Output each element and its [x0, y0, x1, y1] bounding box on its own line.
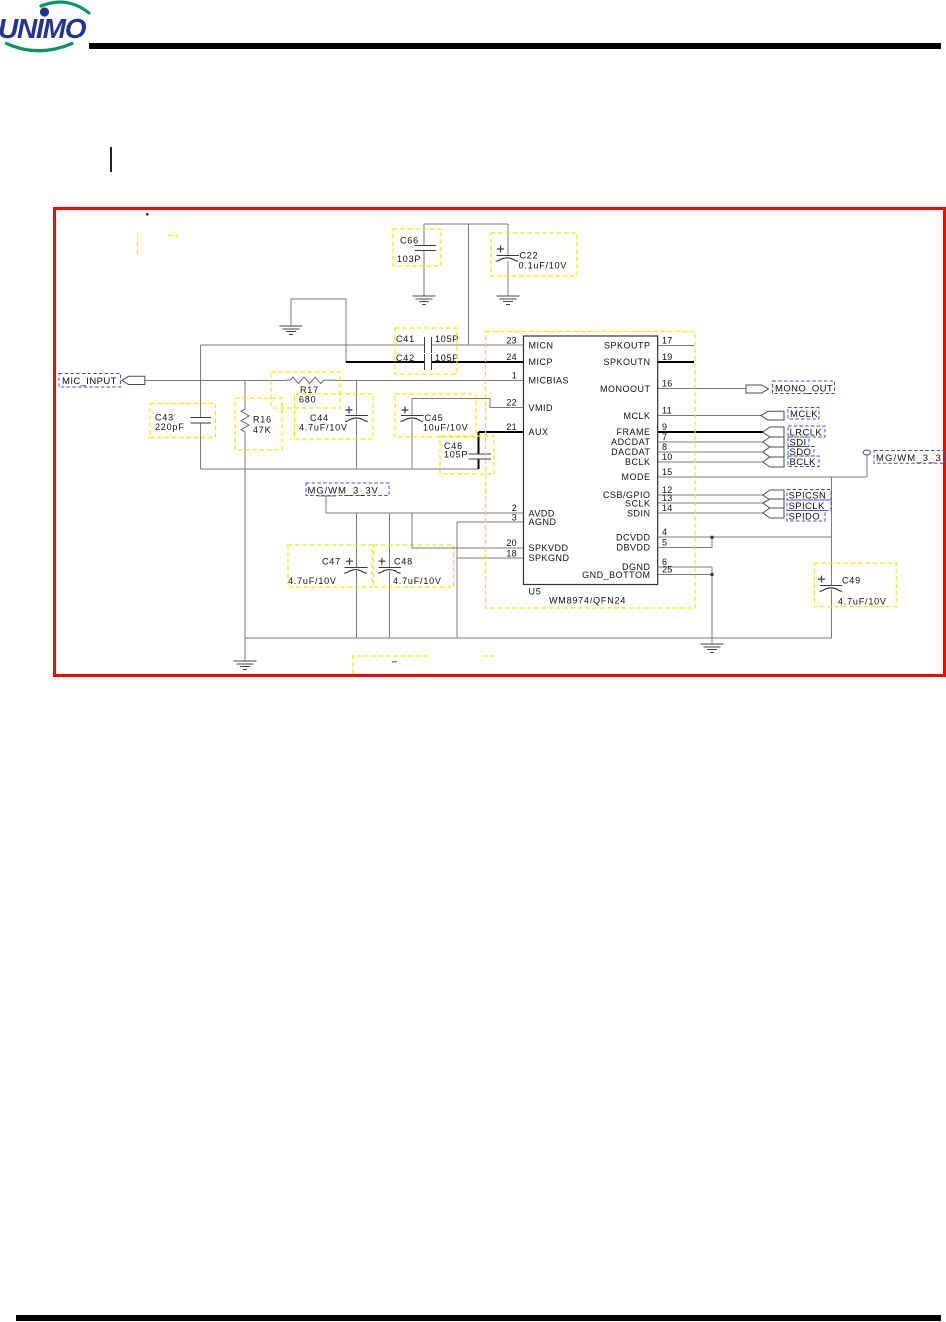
- svg-text:220pF: 220pF: [155, 422, 185, 432]
- label SPICSN: [787, 490, 831, 502]
- wire SCLK net: [658, 502, 763, 504]
- IC big dashed box: [486, 332, 696, 609]
- svg-text:SPKOUTP: SPKOUTP: [604, 341, 651, 351]
- svg-text:21: 21: [506, 422, 517, 432]
- junction pin5: [711, 536, 714, 539]
- svg-text:20: 20: [506, 538, 517, 548]
- pin numbers left: [506, 335, 517, 558]
- label BCLK: [788, 456, 819, 468]
- red frame: [53, 207, 946, 677]
- label SDI: [788, 437, 809, 448]
- svg-text:680: 680: [299, 395, 316, 405]
- schematic svg placeholder: [0, 0, 946, 760]
- svg-text:1: 1: [512, 371, 517, 381]
- svg-text:AUX: AUX: [529, 427, 549, 437]
- wire top bus: [424, 223, 508, 225]
- resistor R17: [271, 372, 340, 408]
- svg-text:13: 13: [662, 493, 673, 503]
- svg-text:2: 2: [512, 503, 517, 513]
- svg-text:MCLK: MCLK: [790, 409, 818, 420]
- svg-text:11: 11: [662, 406, 672, 416]
- capacitor C44: [295, 394, 374, 439]
- svg-text:24: 24: [506, 352, 517, 362]
- svg-text:103P: 103P: [397, 254, 421, 264]
- wire C47 branch: [356, 513, 358, 638]
- svg-text:WM8974/QFN24: WM8974/QFN24: [549, 596, 626, 606]
- wire MONOOUT net: [658, 388, 746, 390]
- svg-text:5: 5: [662, 538, 667, 548]
- svg-text:105P: 105P: [444, 450, 468, 460]
- svg-text:SPKVDD: SPKVDD: [529, 543, 569, 553]
- pin names right: [582, 341, 650, 581]
- svg-text:C47: C47: [322, 557, 341, 567]
- capacitor C41: [396, 334, 459, 353]
- wire SPKVDD link: [412, 513, 524, 548]
- wire MODE net: [658, 455, 867, 537]
- svg-text:4: 4: [662, 527, 667, 537]
- wire AUX net: [479, 432, 524, 469]
- svg-text:17: 17: [662, 335, 673, 345]
- svg-text:105P: 105P: [435, 334, 459, 344]
- port connector MCLK: [761, 411, 784, 420]
- capacitor C46: [440, 436, 494, 474]
- svg-text:C49: C49: [842, 576, 861, 586]
- svg-text:AGND: AGND: [529, 517, 557, 527]
- svg-text:MIC_INPUT: MIC_INPUT: [62, 376, 117, 387]
- wire MICP net: [346, 361, 524, 363]
- wire MCLK net: [658, 415, 761, 417]
- svg-text:3: 3: [512, 513, 517, 523]
- svg-text:4.7uF/10V: 4.7uF/10V: [393, 576, 442, 586]
- port connector SDO: [763, 447, 784, 457]
- ground bottom-mid: [701, 644, 724, 652]
- pin numbers right: [662, 335, 673, 574]
- svg-text:14: 14: [662, 503, 673, 513]
- wire SDIN net: [658, 512, 763, 514]
- svg-text:DACDAT: DACDAT: [611, 447, 650, 457]
- bottom rule: [16, 1315, 941, 1321]
- svg-text:SPKGND: SPKGND: [529, 553, 570, 563]
- op IC U1 body WM8974: [524, 336, 658, 585]
- capacitor C22: [491, 233, 577, 276]
- svg-text:MICP: MICP: [529, 357, 554, 367]
- svg-text:SDIN: SDIN: [627, 508, 651, 518]
- port connector SPICLK: [763, 499, 784, 508]
- svg-text:U5: U5: [529, 587, 542, 597]
- svg-text:SPIDO: SPIDO: [789, 512, 821, 523]
- wire DGND/GND_BOTTOM net: [658, 567, 712, 644]
- svg-text:105P: 105P: [435, 353, 459, 363]
- port connector BCLK: [763, 457, 784, 467]
- pin names left: [529, 341, 570, 564]
- wire FRAME net: [658, 431, 763, 433]
- resistor R16: [235, 381, 282, 662]
- dashed fragment bottom-mid: [483, 655, 498, 657]
- label MG/WM_3_3: [874, 451, 945, 464]
- UNIMO logo: [0, 0, 120, 70]
- wire mid vertical to MICN: [468, 224, 470, 345]
- wire C45/VMID branch: [412, 399, 524, 470]
- wire left vertical / C43 branch: [200, 345, 202, 469]
- wire CSB/GPIO net: [658, 494, 763, 496]
- wire AGND/SPKGND net: [457, 522, 524, 638]
- svg-text:22: 22: [506, 398, 517, 408]
- ground under C22: [497, 296, 520, 304]
- svg-text:MCLK: MCLK: [623, 411, 650, 421]
- svg-text:FRAME: FRAME: [617, 427, 651, 437]
- wire MICN net: [201, 344, 524, 346]
- IC refdes U5: [529, 587, 627, 606]
- svg-text:MG/WM_3_3: MG/WM_3_3: [876, 453, 942, 464]
- wire C44 branch: [356, 381, 358, 470]
- svg-text:MG/WM_3_3V: MG/WM_3_3V: [308, 486, 379, 497]
- junction pin25: [711, 573, 714, 576]
- label MONO_OUT: [773, 381, 835, 394]
- svg-text:MODE: MODE: [622, 472, 651, 482]
- svg-text:DBVDD: DBVDD: [616, 543, 650, 553]
- svg-text:7: 7: [662, 432, 667, 442]
- svg-text:BCLK: BCLK: [790, 457, 817, 468]
- text cursor mark: [110, 147, 112, 172]
- svg-text:C44: C44: [310, 413, 329, 423]
- capacitor C43: [150, 404, 216, 438]
- svg-text:10uF/10V: 10uF/10V: [423, 423, 468, 433]
- svg-text:BCLK: BCLK: [625, 457, 651, 467]
- label SPICLK: [787, 500, 831, 512]
- wire upper-left ground link: [291, 299, 346, 362]
- label SPIDO: [787, 511, 825, 523]
- svg-text:C66: C66: [400, 236, 419, 246]
- wire BCLK net: [658, 461, 763, 463]
- svg-text:SPKOUTN: SPKOUTN: [603, 357, 650, 367]
- label MG/WM_3_3V: [306, 483, 389, 497]
- svg-text:R16: R16: [253, 415, 272, 425]
- svg-text:MICN: MICN: [529, 341, 554, 351]
- port connector SDI: [763, 437, 784, 447]
- svg-text:19: 19: [662, 352, 673, 362]
- label MCLK: [788, 408, 819, 421]
- svg-text:0.1uF/10V: 0.1uF/10V: [519, 261, 568, 271]
- wire C22 vertical: [507, 224, 509, 296]
- ground lower-left: [234, 661, 257, 669]
- svg-text:4.7uF/10V: 4.7uF/10V: [288, 576, 337, 586]
- svg-text:R17: R17: [300, 385, 319, 395]
- svg-text:C45: C45: [425, 413, 444, 423]
- svg-text:16: 16: [662, 379, 673, 389]
- port connector SPIDO: [763, 508, 784, 518]
- port connector LRCLK: [763, 427, 784, 437]
- wire C49 branch: [831, 537, 833, 638]
- wire MICBIAS net: [145, 380, 524, 382]
- label MIC_INPUT: [59, 374, 121, 388]
- capacitor C42: [395, 328, 459, 374]
- svg-text:DCVDD: DCVDD: [616, 532, 651, 542]
- port connector MONO_OUT: [746, 385, 769, 393]
- wire ADCDAT net: [658, 441, 763, 443]
- svg-text:C41: C41: [396, 334, 415, 344]
- svg-text:ADCDAT: ADCDAT: [611, 437, 650, 447]
- svg-text:VMID: VMID: [529, 403, 554, 413]
- svg-text:47K: 47K: [253, 425, 271, 435]
- svg-text:25: 25: [662, 565, 673, 575]
- svg-text:23: 23: [506, 335, 517, 345]
- label SDO: [788, 447, 814, 458]
- wire DCVDD net: [658, 536, 832, 538]
- wire ground rail: [245, 637, 832, 639]
- svg-text:MONOOUT: MONOOUT: [600, 384, 651, 394]
- svg-text:18: 18: [506, 549, 517, 559]
- port connector SPICSN: [763, 490, 784, 500]
- ground under C66: [413, 296, 436, 304]
- capacitor C47: [288, 545, 372, 587]
- smudge: [392, 661, 397, 663]
- ground upper-left: [280, 326, 303, 334]
- capacitor C49: [814, 563, 896, 607]
- svg-text:MICBIAS: MICBIAS: [529, 376, 570, 386]
- svg-text:4.7uF/10V: 4.7uF/10V: [838, 597, 887, 607]
- wire SPKOUTP stub: [658, 344, 694, 346]
- dashed box fragment top-left: [138, 236, 178, 255]
- svg-text:10: 10: [662, 452, 673, 462]
- svg-text:C22: C22: [520, 251, 539, 261]
- wire DBVDD net: [658, 537, 712, 547]
- wire SPKOUTN stub: [658, 361, 694, 363]
- stray dot: [146, 213, 149, 216]
- port connector MIC_INPUT: [122, 376, 145, 384]
- wire rail mid: [201, 468, 479, 470]
- top rule: [89, 43, 941, 49]
- capacitor C66: [393, 229, 441, 266]
- dashed fragment bottom-left: [353, 656, 430, 674]
- capacitor C45: [395, 394, 476, 437]
- svg-text:9: 9: [662, 422, 667, 432]
- svg-text:C48: C48: [394, 557, 413, 567]
- wire AVDD net: [326, 496, 524, 513]
- svg-text:MONO_OUT: MONO_OUT: [775, 383, 833, 394]
- node circle MG/WM_3_3: [863, 450, 870, 455]
- svg-text:8: 8: [662, 442, 667, 452]
- wire DACDAT net: [658, 451, 763, 453]
- label LRCLK: [788, 426, 825, 438]
- svg-text:4.7uF/10V: 4.7uF/10V: [299, 423, 348, 433]
- capacitor C48: [374, 545, 454, 587]
- svg-text:15: 15: [662, 467, 673, 477]
- wire C48 branch: [389, 513, 391, 638]
- svg-text:SCLK: SCLK: [625, 499, 651, 509]
- wire C66 vertical: [423, 224, 425, 296]
- svg-text:GND_BOTTOM: GND_BOTTOM: [582, 570, 650, 580]
- svg-text:C42: C42: [396, 353, 415, 363]
